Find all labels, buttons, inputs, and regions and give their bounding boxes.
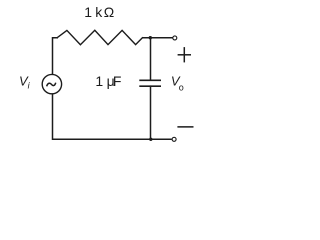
terminal bottom output (172, 137, 176, 141)
wire bottom (53, 94, 172, 139)
wire left vertical (source top to resistor) (53, 38, 58, 74)
terminal top output (173, 36, 177, 40)
resistor R1 (57, 30, 142, 44)
node bottom junction (149, 138, 152, 141)
wire capacitor top lead (150, 38, 152, 80)
wire capacitor bottom lead (150, 86, 152, 139)
label Vo (output voltage) (171, 73, 184, 92)
label 1 kOhm (resistor value) (84, 4, 114, 20)
polarity plus sign (178, 47, 191, 62)
svg-text:Ω: Ω (104, 4, 114, 20)
wire top right to output terminal (142, 37, 172, 39)
svg-text:o: o (179, 82, 184, 92)
polarity minus sign (177, 126, 193, 128)
label 1 uF (capacitor value) (95, 73, 121, 89)
label Vi (input voltage) (19, 74, 31, 91)
svg-text:1: 1 (95, 73, 103, 89)
svg-text:k: k (95, 4, 103, 20)
capacitor C1 (139, 80, 161, 86)
svg-text:1: 1 (84, 4, 92, 20)
node top junction (149, 36, 152, 39)
source Vi sine symbol (47, 83, 56, 85)
source Vi (AC source circle) (42, 74, 61, 93)
svg-text:F: F (113, 73, 122, 89)
